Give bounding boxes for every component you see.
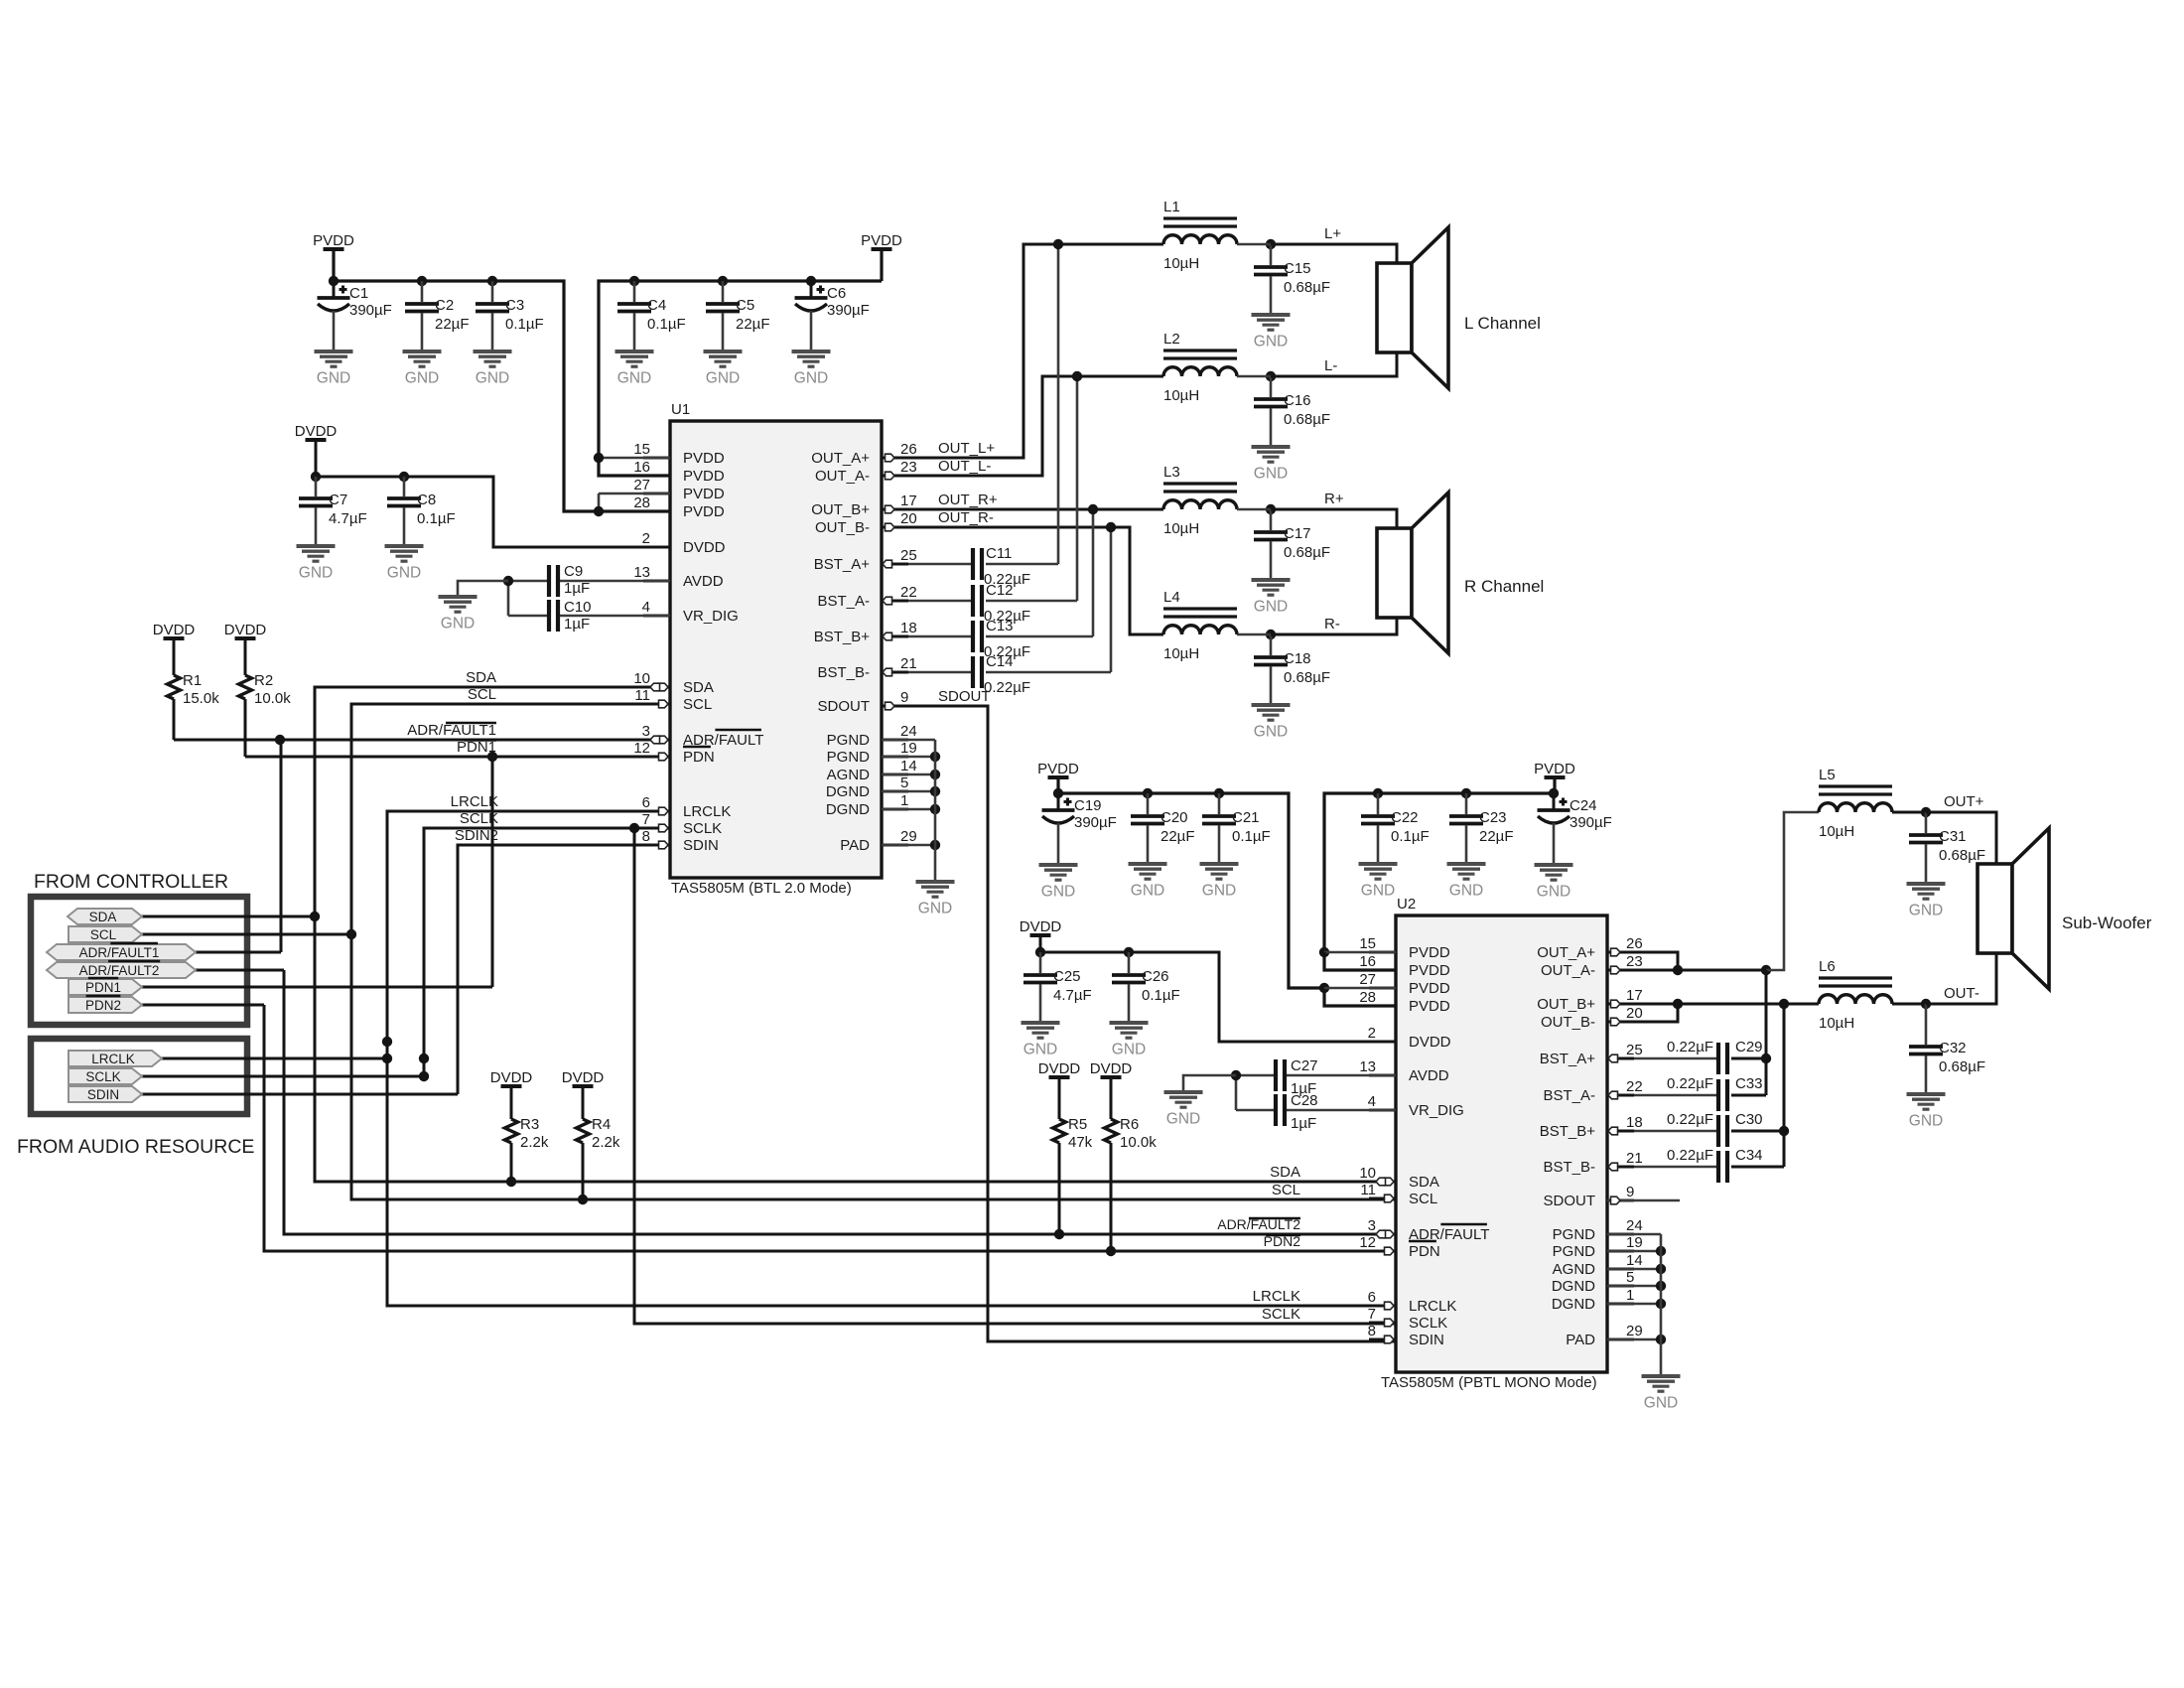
svg-text:L-: L- [1324,357,1337,374]
svg-text:17: 17 [900,492,917,509]
svg-text:1: 1 [900,792,908,809]
svg-text:BST_A-: BST_A- [1543,1087,1595,1104]
svg-text:VR_DIG: VR_DIG [1409,1102,1464,1119]
svg-text:0.68µF: 0.68µF [1284,669,1330,686]
svg-text:21: 21 [900,655,917,672]
svg-text:GND: GND [405,370,439,387]
svg-text:7: 7 [1368,1306,1376,1323]
svg-text:BST_B+: BST_B+ [814,629,871,645]
svg-text:23: 23 [900,459,917,476]
svg-text:0.22µF: 0.22µF [1667,1147,1713,1164]
svg-text:PVDD: PVDD [1409,944,1450,961]
svg-text:C19: C19 [1074,797,1102,814]
svg-text:OUT_A-: OUT_A- [815,468,870,485]
svg-text:GND: GND [1537,884,1570,901]
svg-text:OUT_R+: OUT_R+ [938,492,998,508]
svg-text:OUT_B-: OUT_B- [815,519,870,536]
svg-text:20: 20 [1626,1005,1643,1022]
svg-text:10µH: 10µH [1819,1015,1854,1032]
svg-text:20: 20 [900,510,917,527]
svg-text:LRCLK: LRCLK [683,803,731,820]
svg-text:27: 27 [633,477,650,493]
svg-text:0.1µF: 0.1µF [1232,828,1271,845]
svg-text:OUT_A-: OUT_A- [1541,962,1595,979]
svg-text:GND: GND [706,370,740,387]
svg-text:TAS5805M (BTL 2.0 Mode): TAS5805M (BTL 2.0 Mode) [671,880,852,897]
svg-text:1µF: 1µF [1291,1115,1316,1132]
svg-text:C31: C31 [1939,828,1967,845]
svg-text:0.1µF: 0.1µF [1391,828,1430,845]
svg-text:3: 3 [1368,1217,1376,1234]
svg-text:SDA: SDA [89,910,117,924]
svg-text:PVDD: PVDD [1409,962,1450,979]
svg-text:1µF: 1µF [564,616,590,633]
svg-text:6: 6 [1368,1289,1376,1306]
svg-text:GND: GND [1024,1042,1057,1058]
svg-text:GND: GND [1254,466,1288,483]
svg-text:18: 18 [1626,1114,1643,1131]
svg-text:28: 28 [633,494,650,511]
svg-text:FROM AUDIO RESOURCE: FROM AUDIO RESOURCE [17,1136,254,1158]
svg-text:13: 13 [633,564,650,581]
svg-text:GND: GND [794,370,828,387]
svg-text:8: 8 [1368,1323,1376,1339]
svg-text:AGND: AGND [827,767,871,783]
svg-text:OUT_A+: OUT_A+ [1537,944,1595,961]
svg-text:10: 10 [633,670,650,687]
svg-text:OUT_B+: OUT_B+ [811,501,870,518]
svg-text:PVDD: PVDD [1037,761,1079,777]
svg-text:PVDD: PVDD [683,486,725,502]
svg-text:DVDD: DVDD [295,423,338,440]
svg-text:GND: GND [1131,883,1164,900]
svg-text:GND: GND [317,370,350,387]
svg-text:12: 12 [633,740,650,757]
svg-text:0.22µF: 0.22µF [1667,1039,1713,1055]
svg-text:R4: R4 [592,1116,611,1133]
svg-text:11: 11 [1360,1182,1376,1198]
svg-text:DGND: DGND [826,783,870,800]
svg-text:ADR/FAULT2: ADR/FAULT2 [79,963,160,978]
svg-text:PAD: PAD [1566,1332,1595,1348]
svg-text:C10: C10 [564,599,592,616]
svg-text:11: 11 [634,687,650,704]
svg-text:AGND: AGND [1553,1261,1596,1278]
svg-text:6: 6 [642,794,650,811]
svg-text:DVDD: DVDD [1409,1034,1451,1051]
svg-text:2.2k: 2.2k [520,1134,549,1151]
svg-text:PAD: PAD [840,837,870,854]
svg-text:GND: GND [1361,883,1395,900]
svg-text:4.7µF: 4.7µF [329,510,367,527]
svg-text:DGND: DGND [1552,1278,1595,1295]
svg-text:R3: R3 [520,1116,539,1133]
svg-text:4.7µF: 4.7µF [1053,987,1092,1004]
svg-text:SCLK: SCLK [1262,1306,1300,1323]
svg-text:10µH: 10µH [1163,520,1199,537]
svg-text:SDOUT: SDOUT [938,688,991,705]
svg-text:C11: C11 [986,545,1012,562]
svg-text:L2: L2 [1163,331,1180,348]
svg-text:L5: L5 [1819,767,1836,783]
svg-text:10µH: 10µH [1819,823,1854,840]
svg-text:AVDD: AVDD [1409,1067,1449,1084]
svg-text:9: 9 [1626,1184,1634,1200]
svg-text:0.68µF: 0.68µF [1284,279,1330,296]
svg-text:LRCLK: LRCLK [1253,1288,1300,1305]
svg-text:7: 7 [642,811,650,828]
svg-text:PDN1: PDN1 [85,980,121,995]
svg-text:GND: GND [441,616,475,633]
svg-text:U1: U1 [671,401,690,418]
svg-text:R+: R+ [1324,491,1344,507]
svg-text:DVDD: DVDD [490,1069,533,1086]
svg-text:LRCLK: LRCLK [91,1052,135,1066]
svg-text:PDN2: PDN2 [85,998,121,1013]
svg-text:PGND: PGND [1553,1243,1596,1260]
svg-text:0.22µF: 0.22µF [1667,1075,1713,1092]
svg-text:R2: R2 [254,672,273,689]
svg-text:SDA: SDA [683,679,714,696]
svg-text:TAS5805M (PBTL MONO Mode): TAS5805M (PBTL MONO Mode) [1381,1374,1597,1391]
svg-text:0.68µF: 0.68µF [1939,847,1985,864]
svg-text:DVDD: DVDD [224,622,267,638]
svg-text:C16: C16 [1284,392,1311,409]
svg-text:14: 14 [900,758,917,774]
svg-text:47k: 47k [1068,1134,1093,1151]
svg-text:PVDD: PVDD [683,503,725,520]
svg-text:R5: R5 [1068,1116,1087,1133]
svg-text:SCL: SCL [468,686,496,703]
svg-text:BST_B+: BST_B+ [1540,1123,1596,1140]
svg-text:390µF: 390µF [349,302,392,319]
svg-text:PVDD: PVDD [683,450,725,467]
svg-text:PVDD: PVDD [1409,980,1450,997]
svg-text:PVDD: PVDD [861,232,902,249]
svg-text:OUT_L+: OUT_L+ [938,440,995,457]
svg-text:19: 19 [1626,1234,1643,1251]
svg-text:GND: GND [1166,1111,1200,1128]
svg-text:C21: C21 [1232,809,1260,826]
svg-text:GND: GND [1254,724,1288,741]
svg-text:BST_B-: BST_B- [817,664,870,681]
svg-text:C30: C30 [1735,1111,1763,1128]
svg-text:GND: GND [476,370,509,387]
svg-text:21: 21 [1626,1150,1643,1167]
svg-text:22µF: 22µF [1479,828,1514,845]
svg-text:SCLK: SCLK [683,820,722,837]
svg-text:GND: GND [1254,599,1288,616]
svg-text:15.0k: 15.0k [183,690,219,707]
svg-text:18: 18 [900,620,917,636]
svg-text:DVDD: DVDD [1020,918,1062,935]
svg-text:SCL: SCL [90,927,117,942]
svg-text:DGND: DGND [826,801,870,818]
svg-text:390µF: 390µF [827,302,870,319]
svg-text:24: 24 [900,723,917,740]
svg-text:OUT-: OUT- [1944,985,1979,1002]
svg-text:R-: R- [1324,616,1340,633]
svg-text:R1: R1 [183,672,202,689]
svg-text:C23: C23 [1479,809,1507,826]
svg-text:25: 25 [900,547,917,564]
svg-text:22: 22 [900,584,917,601]
svg-text:29: 29 [1626,1323,1643,1339]
svg-text:22µF: 22µF [736,316,770,333]
svg-text:22µF: 22µF [1160,828,1195,845]
svg-text:VR_DIG: VR_DIG [683,608,739,625]
svg-text:28: 28 [1359,989,1376,1006]
svg-text:SDIN: SDIN [683,837,719,854]
svg-text:13: 13 [1359,1058,1376,1075]
svg-text:C25: C25 [1053,968,1081,985]
svg-text:C14: C14 [986,653,1014,670]
svg-text:SDOUT: SDOUT [1544,1193,1596,1209]
svg-text:SCLK: SCLK [85,1069,120,1084]
svg-text:SDA: SDA [1270,1164,1300,1181]
svg-text:OUT_A+: OUT_A+ [811,450,870,467]
svg-text:PGND: PGND [1553,1226,1596,1243]
svg-text:10µH: 10µH [1163,255,1199,272]
svg-text:29: 29 [900,828,917,845]
svg-text:PGND: PGND [827,732,871,749]
svg-text:GND: GND [918,901,952,917]
svg-text:GND: GND [1041,884,1075,901]
svg-text:4: 4 [1368,1093,1376,1110]
svg-text:PDN: PDN [1409,1243,1440,1260]
svg-text:GND: GND [1449,883,1483,900]
svg-text:ADR/FAULT1: ADR/FAULT1 [79,945,160,960]
svg-text:0.22µF: 0.22µF [1667,1111,1713,1128]
svg-text:8: 8 [642,828,650,845]
svg-text:C3: C3 [505,297,524,314]
svg-text:C27: C27 [1291,1057,1318,1074]
svg-text:2.2k: 2.2k [592,1134,620,1151]
svg-text:DVDD: DVDD [683,539,726,556]
svg-text:24: 24 [1626,1217,1643,1234]
svg-text:16: 16 [1359,953,1376,970]
svg-text:0.68µF: 0.68µF [1284,411,1330,428]
svg-text:0.22µF: 0.22µF [984,679,1030,696]
svg-text:OUT_B-: OUT_B- [1541,1014,1595,1031]
svg-text:15: 15 [1359,935,1376,952]
svg-text:12: 12 [1359,1234,1376,1251]
svg-text:27: 27 [1359,971,1376,988]
svg-text:C5: C5 [736,297,754,314]
svg-text:L4: L4 [1163,589,1180,606]
svg-text:L3: L3 [1163,464,1180,481]
svg-text:0.1µF: 0.1µF [417,510,456,527]
svg-text:17: 17 [1626,987,1643,1004]
svg-text:U2: U2 [1397,896,1416,913]
svg-text:16: 16 [633,459,650,476]
svg-text:C18: C18 [1284,650,1311,667]
svg-text:1: 1 [1626,1287,1634,1304]
svg-text:19: 19 [900,740,917,757]
svg-text:C8: C8 [417,492,436,508]
svg-text:2: 2 [1368,1025,1376,1042]
svg-text:C6: C6 [827,285,846,302]
svg-text:SDIN: SDIN [87,1087,119,1102]
svg-text:C24: C24 [1570,797,1597,814]
svg-text:BST_B-: BST_B- [1543,1159,1595,1176]
svg-text:L6: L6 [1819,958,1836,975]
svg-text:SDOUT: SDOUT [818,698,871,715]
svg-text:10µH: 10µH [1163,387,1199,404]
svg-text:C13: C13 [986,618,1014,634]
svg-text:0.68µF: 0.68µF [1939,1058,1985,1075]
svg-text:DVDD: DVDD [153,622,196,638]
svg-text:GND: GND [1909,903,1943,919]
svg-text:C26: C26 [1142,968,1169,985]
svg-text:AVDD: AVDD [683,573,724,590]
svg-text:DVDD: DVDD [1038,1060,1081,1077]
svg-text:C17: C17 [1284,525,1311,542]
svg-text:LRCLK: LRCLK [1409,1298,1456,1315]
svg-text:5: 5 [900,774,908,791]
svg-text:0.68µF: 0.68µF [1284,544,1330,561]
svg-text:4: 4 [642,599,650,616]
svg-text:DVDD: DVDD [1090,1060,1133,1077]
svg-text:DGND: DGND [1552,1296,1595,1313]
svg-text:10µH: 10µH [1163,645,1199,662]
svg-text:L+: L+ [1324,225,1341,242]
svg-text:Sub-Woofer: Sub-Woofer [2062,914,2152,932]
svg-text:5: 5 [1626,1269,1634,1286]
svg-text:C29: C29 [1735,1039,1763,1055]
svg-text:SDA: SDA [1409,1174,1439,1191]
svg-text:C12: C12 [986,582,1014,599]
svg-text:DVDD: DVDD [562,1069,605,1086]
svg-text:0.1µF: 0.1µF [647,316,686,333]
svg-text:L1: L1 [1163,199,1180,215]
svg-text:C4: C4 [647,297,666,314]
svg-text:BST_A+: BST_A+ [1540,1051,1596,1067]
svg-text:390µF: 390µF [1074,814,1117,831]
svg-text:10: 10 [1359,1165,1376,1182]
svg-text:SDA: SDA [466,669,496,686]
svg-text:PGND: PGND [827,749,871,766]
svg-text:22µF: 22µF [435,316,470,333]
svg-text:26: 26 [1626,935,1643,952]
svg-text:C32: C32 [1939,1040,1967,1056]
svg-text:SCL: SCL [1272,1182,1300,1198]
svg-text:C15: C15 [1284,260,1311,277]
svg-text:OUT+: OUT+ [1944,793,1984,810]
svg-text:14: 14 [1626,1252,1643,1269]
svg-text:10.0k: 10.0k [1120,1134,1157,1151]
svg-text:C2: C2 [435,297,454,314]
svg-text:SCL: SCL [1409,1191,1437,1207]
svg-text:R Channel: R Channel [1464,577,1544,596]
svg-text:C1: C1 [349,285,368,302]
svg-text:10.0k: 10.0k [254,690,291,707]
svg-text:C34: C34 [1735,1147,1763,1164]
svg-text:0.1µF: 0.1µF [505,316,544,333]
svg-text:9: 9 [900,689,908,706]
svg-text:GND: GND [1112,1042,1146,1058]
svg-text:25: 25 [1626,1042,1643,1058]
svg-text:PVDD: PVDD [313,232,354,249]
svg-text:PVDD: PVDD [683,468,725,485]
svg-text:SCLK: SCLK [1409,1315,1447,1332]
svg-text:ADR/FAULT1: ADR/FAULT1 [407,722,496,739]
svg-text:C33: C33 [1735,1075,1763,1092]
svg-text:OUT_L-: OUT_L- [938,458,991,475]
svg-text:PDN: PDN [683,749,715,766]
svg-text:C28: C28 [1291,1092,1318,1109]
svg-text:3: 3 [642,723,650,740]
svg-text:0.1µF: 0.1µF [1142,987,1180,1004]
svg-text:OUT_R-: OUT_R- [938,509,994,526]
svg-text:26: 26 [900,441,917,458]
svg-text:L Channel: L Channel [1464,314,1541,333]
svg-text:15: 15 [633,441,650,458]
svg-text:SCL: SCL [683,696,712,713]
svg-text:GND: GND [1909,1113,1943,1130]
svg-text:22: 22 [1626,1078,1643,1095]
svg-text:GND: GND [299,565,333,582]
svg-text:BST_A+: BST_A+ [814,556,871,573]
svg-text:C20: C20 [1160,809,1188,826]
svg-text:C9: C9 [564,563,583,580]
svg-text:OUT_B+: OUT_B+ [1537,996,1595,1013]
svg-text:PVDD: PVDD [1534,761,1575,777]
svg-text:390µF: 390µF [1570,814,1612,831]
svg-text:2: 2 [642,530,650,547]
svg-text:23: 23 [1626,953,1643,970]
svg-text:GND: GND [1644,1395,1678,1412]
svg-text:C7: C7 [329,492,347,508]
svg-text:SDIN: SDIN [1409,1332,1444,1348]
svg-text:GND: GND [1254,334,1288,351]
svg-text:1µF: 1µF [564,580,590,597]
svg-text:GND: GND [387,565,421,582]
svg-text:GND: GND [1202,883,1236,900]
svg-text:FROM CONTROLLER: FROM CONTROLLER [34,871,228,893]
svg-text:GND: GND [617,370,651,387]
svg-text:R6: R6 [1120,1116,1139,1133]
svg-text:BST_A-: BST_A- [817,593,870,610]
svg-text:PVDD: PVDD [1409,998,1450,1015]
svg-text:C22: C22 [1391,809,1419,826]
